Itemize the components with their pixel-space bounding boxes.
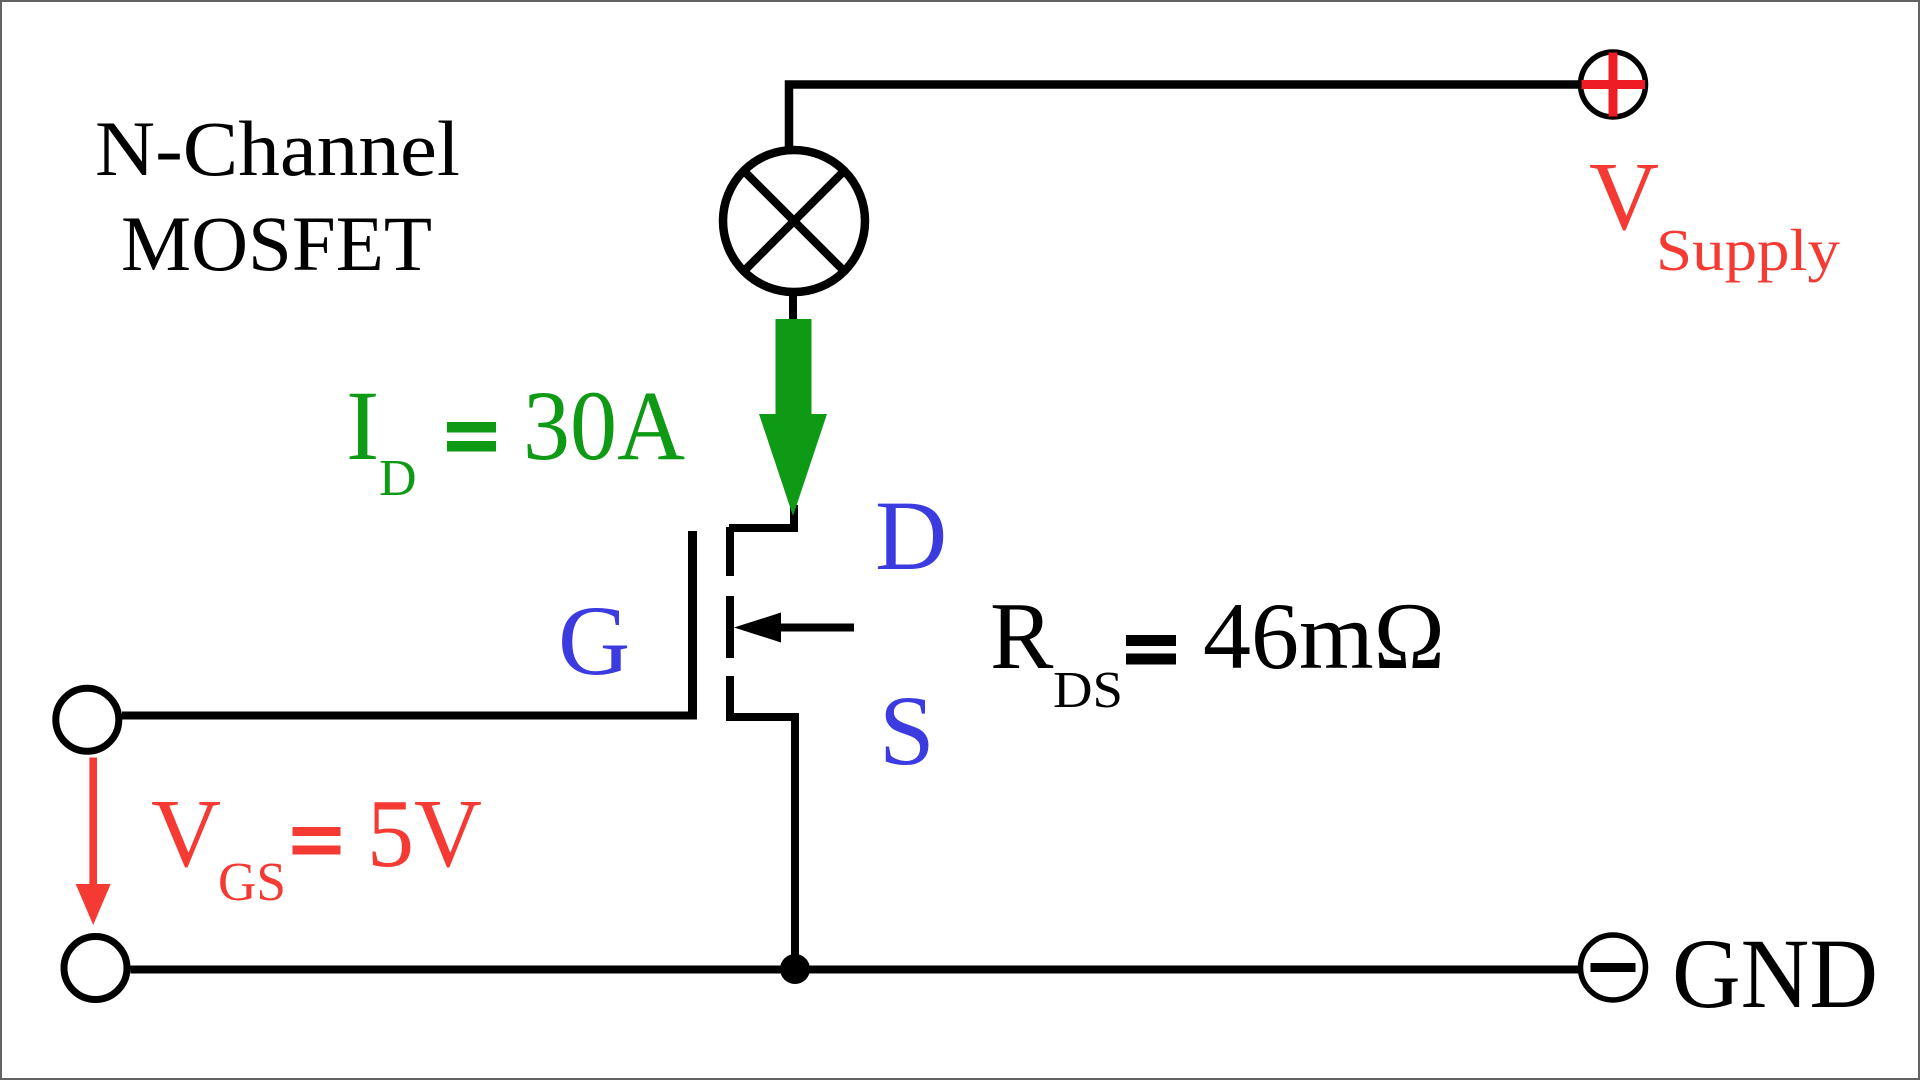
svg-text:30A: 30A xyxy=(523,370,685,481)
svg-text:V: V xyxy=(1589,143,1659,250)
svg-text:V: V xyxy=(151,780,221,887)
terminal gate input xyxy=(56,688,119,751)
junction node source/ground xyxy=(780,954,810,984)
wire gate to terminal xyxy=(122,712,697,720)
ground rail wire xyxy=(131,966,1581,974)
ground terminal minus xyxy=(1581,935,1646,1000)
svg-text:S: S xyxy=(879,675,935,786)
label RDS = 46mOhm xyxy=(990,583,1445,719)
svg-text:D: D xyxy=(875,480,947,591)
svg-text:D: D xyxy=(379,450,417,507)
lamp L1 xyxy=(723,150,865,292)
svg-text:46mΩ: 46mΩ xyxy=(1203,583,1445,689)
svg-text:R: R xyxy=(990,583,1054,689)
wire lamp to drain arrow xyxy=(789,293,797,325)
svg-text:MOSFET: MOSFET xyxy=(121,200,432,287)
label VSupply xyxy=(1589,143,1841,283)
svg-text:I: I xyxy=(346,370,379,481)
transistor Q1 body arrow xyxy=(734,613,854,643)
transistor Q1 gate line xyxy=(688,531,697,719)
wire drain stub xyxy=(729,505,794,528)
svg-text:Supply: Supply xyxy=(1656,217,1841,283)
label VGS = 5V xyxy=(151,780,482,912)
svg-text:5V: 5V xyxy=(367,780,482,887)
svg-text:DS: DS xyxy=(1053,662,1123,719)
svg-text:GS: GS xyxy=(218,851,286,912)
label ID = 30A xyxy=(346,370,685,507)
voltage arrow VGS xyxy=(76,758,111,926)
svg-text:GND: GND xyxy=(1672,918,1878,1029)
supply terminal plus xyxy=(1581,52,1646,117)
svg-text:N-Channel: N-Channel xyxy=(95,105,460,192)
wire top rail from lamp to supply terminal xyxy=(789,85,1579,148)
svg-text:G: G xyxy=(558,585,630,696)
wire source to ground rail xyxy=(729,717,795,969)
current arrow ID xyxy=(759,319,827,516)
transistor Q1 channel dashes xyxy=(726,527,734,721)
terminal source return xyxy=(64,937,127,1000)
